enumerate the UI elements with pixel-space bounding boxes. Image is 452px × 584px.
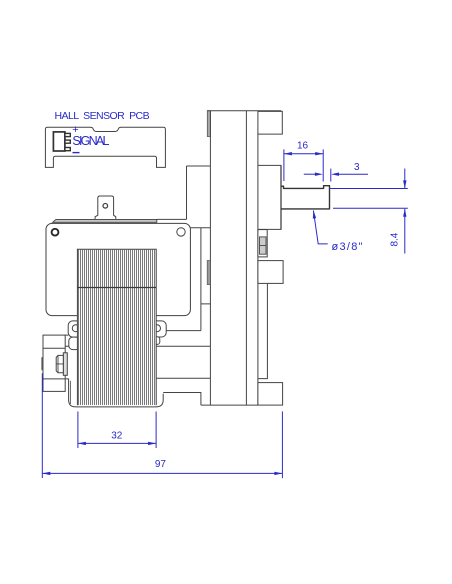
bracket divider lower — [43, 378, 69, 380]
wire y378 right — [156, 377, 210, 379]
bearing housing — [258, 230, 267, 257]
svg-text:SIGNAL: SIGNAL — [72, 134, 109, 148]
lamination joint line — [77, 287, 156, 289]
gearbox mid plate edge — [245, 111, 247, 405]
dimension 8.4 — [330, 169, 408, 254]
left bobbin ear lower — [69, 337, 80, 350]
wire y392 — [163, 393, 201, 406]
top right cover block — [258, 111, 282, 134]
svg-text:ø3/8": ø3/8" — [332, 241, 363, 253]
connector pin SIGNAL — [65, 140, 70, 143]
output shaft boss — [258, 165, 281, 229]
leader diameter 3/8 — [313, 210, 327, 244]
boss edge over shaft root — [280, 165, 282, 229]
gearbox foot — [258, 383, 283, 406]
gearbox column — [258, 283, 268, 378]
bracket divider upper — [43, 347, 65, 349]
motor cover — [46, 223, 190, 315]
dimension 16 — [284, 149, 323, 181]
bearing screw — [260, 237, 267, 254]
wire y330 right — [166, 330, 201, 332]
shaft end washer — [41, 357, 43, 370]
wire y346 right — [156, 345, 210, 347]
bracket top edge extension — [65, 335, 69, 346]
dimension 3 — [304, 169, 368, 182]
connector J1 on PCB — [53, 132, 65, 151]
gearbox rear plate notch — [187, 166, 211, 219]
svg-text:3: 3 — [354, 162, 360, 173]
right bobbin ear upper — [152, 321, 166, 337]
right bobbin ear lower — [152, 337, 160, 345]
hall sensor PCB outline — [45, 127, 165, 167]
left bobbin ear upper — [68, 321, 81, 337]
output shaft — [281, 186, 330, 209]
small gray tab — [207, 261, 210, 285]
gearbox top edge — [207, 110, 281, 112]
label - — [73, 152, 80, 154]
plate top edge extension — [157, 218, 187, 220]
svg-text:97: 97 — [155, 459, 167, 470]
gearbox front plate edge — [209, 111, 211, 405]
screw hole right — [177, 228, 185, 236]
motor end bell — [69, 379, 164, 407]
terminal box right — [190, 228, 210, 331]
svg-text:32: 32 — [111, 431, 123, 442]
end bell inner edge — [69, 381, 71, 404]
gearbox mid block — [258, 261, 283, 284]
washer plate — [63, 353, 67, 376]
svg-text:HALL SENSOR PCB: HALL SENSOR PCB — [55, 110, 151, 122]
stator lamination stack — [77, 249, 156, 405]
terminal tab hole — [103, 204, 108, 209]
hex bolt head — [56, 355, 63, 372]
screw hole left (bold) — [52, 229, 59, 236]
motor top clamp plate — [53, 219, 157, 222]
svg-text:8.4: 8.4 — [390, 232, 401, 246]
dimension 32 — [78, 412, 156, 449]
motor terminal tab — [95, 196, 116, 221]
gearbox bottom edge — [201, 404, 258, 406]
dimension 97 — [42, 373, 282, 478]
connector pin + — [65, 133, 70, 136]
gearbox right plate edge — [257, 111, 259, 405]
gearbox plate gray strip — [207, 111, 210, 137]
svg-text:16: 16 — [297, 141, 309, 152]
left bearing bracket — [43, 335, 65, 391]
connector pin - — [65, 148, 70, 151]
